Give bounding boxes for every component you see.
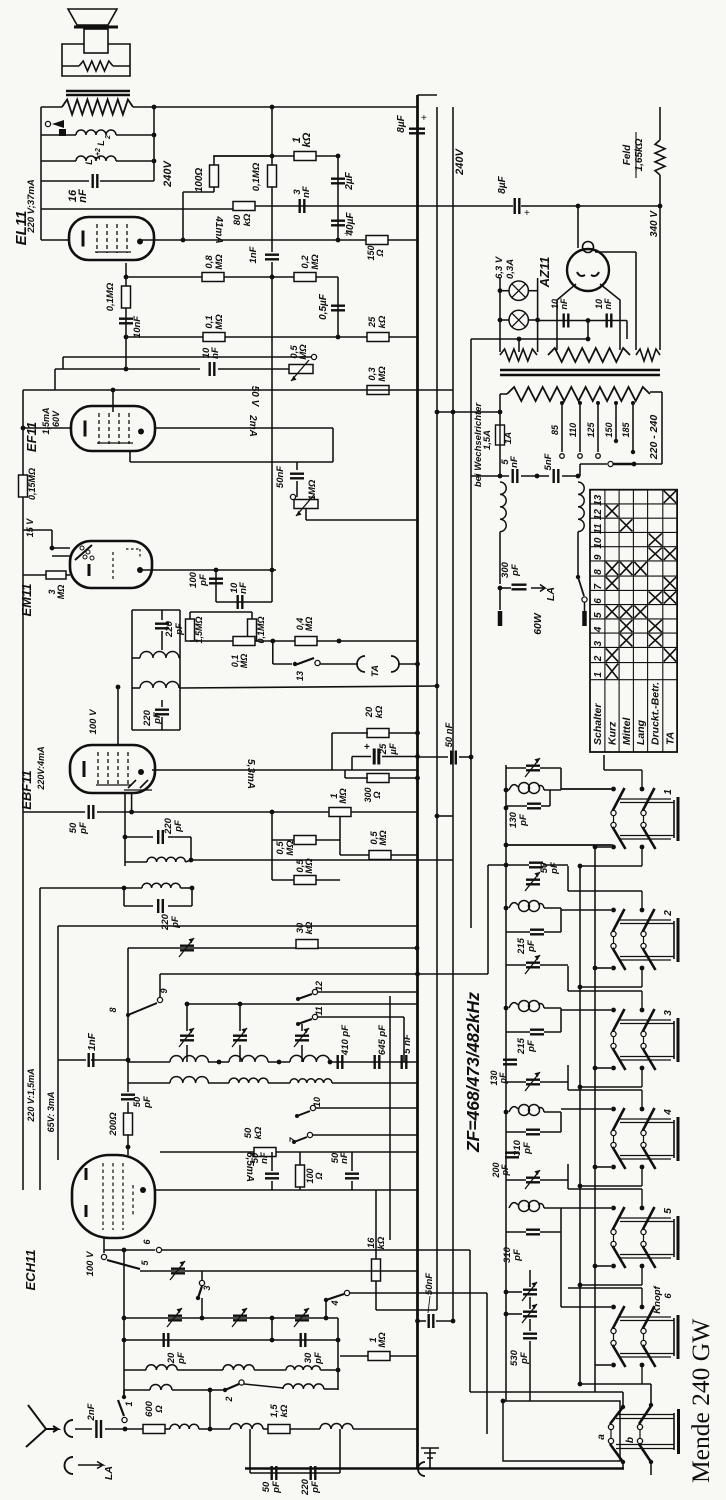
junction xyxy=(504,863,509,868)
svg-text:MΩ: MΩ xyxy=(214,314,225,330)
svg-text:pF: pF xyxy=(310,1481,321,1494)
wire xyxy=(375,1281,377,1310)
svg-text:50 V: 50 V xyxy=(249,386,260,408)
LA jack xyxy=(65,1457,74,1474)
wire 812 line b xyxy=(97,811,329,813)
ECH11 internals xyxy=(85,1168,88,1180)
wire rail 338 xyxy=(337,156,339,240)
wire xyxy=(189,612,191,619)
wire xyxy=(500,319,509,321)
junction xyxy=(535,474,540,479)
wire 50V line xyxy=(23,389,453,391)
svg-text:220V:4mA: 220V:4mA xyxy=(36,746,46,790)
svg-text:pF: pF xyxy=(170,916,181,929)
wire xyxy=(123,1390,125,1397)
capacitor 2µF xyxy=(331,179,345,184)
svg-text:0,1MΩ: 0,1MΩ xyxy=(251,162,262,191)
svg-text:1MΩ: 1MΩ xyxy=(307,479,318,500)
wire xyxy=(161,700,163,707)
switch 11 arm xyxy=(298,1019,312,1024)
wire xyxy=(528,319,537,321)
svg-text:pF: pF xyxy=(78,822,89,835)
AZ11 filament hooks xyxy=(577,272,599,276)
coil L2 row xyxy=(76,130,116,135)
wire xyxy=(595,1067,611,1069)
trimmer capacitor a arrow xyxy=(179,938,194,957)
wire AZ11 plate lead right xyxy=(600,284,620,339)
wire xyxy=(305,509,307,520)
svg-text:0,5µF: 0,5µF xyxy=(318,293,329,320)
potentiometer 0,5MΩ xyxy=(289,365,313,374)
wire xyxy=(540,1131,561,1133)
svg-text:TA: TA xyxy=(370,665,381,677)
wire xyxy=(129,451,131,462)
svg-text:MΩ: MΩ xyxy=(378,830,389,846)
junction xyxy=(415,972,420,977)
table X marks xyxy=(606,505,618,517)
junction xyxy=(238,1002,243,1007)
capacitor 40µF xyxy=(331,221,345,226)
wire xyxy=(506,1313,522,1315)
trimmer IF3 xyxy=(526,1080,540,1085)
wire to switch 1 lower xyxy=(506,844,613,846)
junction xyxy=(415,662,420,667)
svg-text:Feld: Feld xyxy=(622,144,633,165)
ab contact a xyxy=(608,1424,613,1429)
wire xyxy=(216,601,272,603)
switch 1 arm xyxy=(118,1400,124,1416)
svg-text:5: 5 xyxy=(593,612,604,618)
capacitor 5nF c xyxy=(402,1055,407,1069)
wire xyxy=(299,1187,301,1190)
svg-text:kΩ: kΩ xyxy=(301,132,313,147)
svg-text:µF: µF xyxy=(388,743,399,755)
main bus xyxy=(416,95,419,1468)
svg-text:2: 2 xyxy=(593,655,604,662)
capacitor 10nF xyxy=(119,319,133,324)
trimmer capacitor g arrow xyxy=(167,1308,182,1327)
mains core 1 xyxy=(500,369,660,372)
bus 453 xyxy=(452,107,454,1321)
capacitor 220pF a xyxy=(155,624,169,629)
junction xyxy=(576,474,581,479)
wire 926 line xyxy=(58,925,417,927)
resistor 3MΩ xyxy=(46,571,66,579)
junction xyxy=(504,843,509,848)
trimmer capacitor e arrow xyxy=(170,1261,185,1280)
junction xyxy=(295,1114,299,1118)
wire xyxy=(41,134,76,136)
fuse 1,5A xyxy=(496,425,505,445)
coil ant a1 xyxy=(146,1365,177,1370)
wire xyxy=(488,864,529,866)
left rail 40 xyxy=(39,888,41,1190)
wire 10 line xyxy=(316,1107,417,1109)
svg-text:6: 6 xyxy=(593,598,604,604)
capacitor 220pF c xyxy=(158,830,163,844)
wire xyxy=(127,1083,129,1092)
wire xyxy=(191,888,193,906)
capacitor 1nF b xyxy=(89,1053,94,1067)
junction xyxy=(296,1022,300,1026)
wire xyxy=(201,1298,203,1318)
svg-text:MΩ: MΩ xyxy=(56,585,66,600)
svg-text:2nF: 2nF xyxy=(86,1403,97,1421)
coil osc a2 xyxy=(229,1056,268,1062)
wire xyxy=(562,475,580,477)
wire xyxy=(160,1151,254,1153)
svg-text:150: 150 xyxy=(604,422,614,437)
junction xyxy=(586,318,591,323)
wire xyxy=(506,1081,526,1083)
tube EF11 xyxy=(71,406,155,451)
wire xyxy=(635,290,637,350)
junction xyxy=(122,1248,127,1253)
wire EM11 anode line xyxy=(140,569,276,571)
wire 1340 line xyxy=(124,1339,338,1341)
wire xyxy=(271,1152,273,1171)
capacitor 130pF a xyxy=(527,804,541,809)
wire riser 272 xyxy=(272,641,274,664)
svg-text:AZ11: AZ11 xyxy=(537,257,552,289)
transformer core line 2 xyxy=(66,94,130,97)
svg-text:pF: pF xyxy=(512,1249,523,1262)
wire xyxy=(459,756,471,758)
junction xyxy=(123,835,128,840)
coil osc b1 xyxy=(170,1077,208,1083)
wire xyxy=(561,1306,611,1308)
ground bus bottom xyxy=(245,1467,624,1470)
junction xyxy=(593,1066,598,1071)
wire xyxy=(595,967,611,969)
wire xyxy=(186,1004,188,1031)
svg-text:kΩ: kΩ xyxy=(304,921,315,934)
wire 1384 line xyxy=(580,1383,651,1385)
svg-text:645 pF: 645 pF xyxy=(377,1025,388,1055)
svg-text:410 pF: 410 pF xyxy=(340,1025,351,1056)
svg-text:Lang: Lang xyxy=(635,719,647,745)
wire tap 125 xyxy=(597,403,599,452)
wire xyxy=(190,837,192,860)
junction xyxy=(111,388,116,393)
wire xyxy=(506,1231,526,1233)
wire xyxy=(529,1319,531,1331)
trimmer osc b arrow xyxy=(522,1304,537,1323)
svg-text:8µF: 8µF xyxy=(396,114,407,132)
tap contact 125 xyxy=(596,454,601,459)
coil dial lamp choke b xyxy=(578,482,584,532)
ab arm b lower xyxy=(639,1444,651,1462)
wire ECH anode line xyxy=(155,1189,417,1191)
wire xyxy=(132,657,140,659)
wire 390 rail xyxy=(389,996,391,1240)
svg-text:L: L xyxy=(96,140,106,146)
junction xyxy=(504,806,509,811)
tube ECH11 xyxy=(72,1155,155,1238)
wire xyxy=(389,732,418,734)
junction xyxy=(576,575,580,579)
trimmer capacitor i xyxy=(295,1316,309,1321)
coil osc b2 xyxy=(229,1078,268,1083)
trimmer capacitor h xyxy=(233,1316,247,1321)
wire xyxy=(568,890,642,892)
wire xyxy=(208,1082,229,1084)
wire xyxy=(324,1388,338,1390)
wire xyxy=(560,768,562,790)
wire xyxy=(580,865,642,867)
junction xyxy=(649,1460,653,1464)
resistor 0,15MΩ xyxy=(19,475,28,497)
capacitor 50pF d xyxy=(529,863,543,868)
capacitor 8µF b xyxy=(515,198,520,214)
junction xyxy=(214,568,219,573)
capacitor 50nF a xyxy=(290,474,304,479)
wire xyxy=(125,836,153,838)
wire rail 272 xyxy=(271,107,273,165)
tube AZ11 xyxy=(567,249,609,291)
coil L1+2 row xyxy=(76,156,116,161)
wire 357 line xyxy=(63,356,311,358)
wire riser xyxy=(344,770,346,778)
label 50nF leader xyxy=(428,1296,430,1313)
svg-text:0,15MΩ: 0,15MΩ xyxy=(27,468,37,500)
wire 462 line xyxy=(130,461,333,463)
junction xyxy=(181,238,186,243)
switch 2 arm xyxy=(225,1384,239,1390)
wire coil frame L xyxy=(131,610,133,730)
wire 220-240 drop xyxy=(661,392,663,464)
junction xyxy=(196,1296,200,1300)
svg-text:50 nF: 50 nF xyxy=(444,722,455,747)
wire xyxy=(316,839,340,841)
switch 13 contact xyxy=(315,660,320,665)
wire xyxy=(626,321,628,340)
tap switch arm xyxy=(52,120,64,128)
svg-text:Kurz: Kurz xyxy=(607,721,619,745)
wire riser xyxy=(351,757,353,771)
switch 4 arm xyxy=(326,1294,344,1300)
wire xyxy=(540,767,561,769)
antenna symbol xyxy=(26,1405,58,1447)
coil ant b1 xyxy=(150,1385,172,1391)
switch 1 contact xyxy=(122,1417,127,1422)
svg-text:7: 7 xyxy=(593,584,604,590)
junction xyxy=(498,474,503,479)
capacitor 130pF b xyxy=(503,1060,517,1065)
wire xyxy=(587,321,589,340)
svg-text:1: 1 xyxy=(124,1401,134,1406)
wire xyxy=(340,854,369,856)
wire tube lead b xyxy=(124,793,126,866)
loudspeaker magnet xyxy=(84,29,108,53)
junction xyxy=(126,1013,130,1017)
svg-text:kΩ: kΩ xyxy=(253,1126,264,1139)
wire corner xyxy=(54,369,56,390)
wire cathode EL11 xyxy=(41,239,69,241)
wire 5nF row xyxy=(471,475,509,477)
EF11 left rail xyxy=(22,390,24,530)
mains primary zigzag xyxy=(507,387,650,401)
svg-text:EF11: EF11 xyxy=(24,422,39,452)
wire tap 150 xyxy=(615,403,617,441)
wire xyxy=(116,134,154,136)
capacitor 20pF xyxy=(164,1333,169,1347)
svg-text:200Ω: 200Ω xyxy=(108,1112,119,1137)
switch 5 arm xyxy=(107,1260,140,1269)
capacitor 215pF b xyxy=(530,1030,544,1035)
svg-text:+: + xyxy=(524,208,530,219)
wire tap 110 xyxy=(579,403,581,452)
bus 471 xyxy=(470,339,472,928)
switch group 1 xyxy=(620,798,671,800)
junction xyxy=(435,814,440,819)
wire xyxy=(168,836,191,838)
wire xyxy=(301,1024,303,1031)
junction xyxy=(504,788,509,793)
wire xyxy=(580,1284,642,1286)
capacitor 1nF xyxy=(265,255,279,260)
svg-text:5,3mA: 5,3mA xyxy=(245,759,256,789)
wire riser xyxy=(331,733,333,770)
wire xyxy=(208,1061,229,1063)
svg-text:nF: nF xyxy=(509,456,520,468)
wire xyxy=(528,290,537,292)
junction xyxy=(124,335,129,340)
capacitor 10nF b xyxy=(210,362,215,376)
wire xyxy=(544,1007,561,1009)
wire xyxy=(320,663,358,665)
capacitor 300pF xyxy=(512,585,527,590)
trimmer IF2b arrow xyxy=(525,955,540,974)
wire 1318 line xyxy=(124,1317,338,1319)
wire 1392 line xyxy=(470,1391,623,1393)
wire xyxy=(272,839,294,841)
capacitor 10nF e xyxy=(238,595,243,609)
wire xyxy=(165,1428,170,1430)
junction xyxy=(270,1316,275,1321)
rail 580 xyxy=(579,867,581,1384)
junction xyxy=(504,1110,509,1115)
wire xyxy=(125,861,147,863)
wire xyxy=(567,966,569,991)
junction xyxy=(593,845,598,850)
wire xyxy=(41,160,76,162)
wire AZ11 right xyxy=(595,251,636,253)
wire xyxy=(577,532,579,575)
coil IF a xyxy=(140,652,179,659)
capacitor 16nF xyxy=(93,174,98,188)
wire xyxy=(580,1086,642,1088)
svg-text:110: 110 xyxy=(568,423,578,437)
svg-text:85: 85 xyxy=(550,424,560,435)
junction xyxy=(469,755,474,760)
wire mains feed xyxy=(437,411,500,413)
wire xyxy=(159,974,161,997)
svg-text:1nF: 1nF xyxy=(248,246,259,263)
wire lamp rail L xyxy=(499,278,501,352)
wire heater mid xyxy=(471,338,588,340)
svg-text:1A: 1A xyxy=(503,432,514,444)
coil osc b3 xyxy=(290,1079,332,1083)
svg-text:5: 5 xyxy=(663,1208,674,1214)
svg-text:kΩ: kΩ xyxy=(377,315,388,328)
wire xyxy=(544,1207,561,1209)
wire xyxy=(506,844,611,846)
svg-text:nF: nF xyxy=(210,347,221,359)
svg-text:nF: nF xyxy=(339,1152,350,1164)
left rail 23 lower xyxy=(22,575,24,1190)
switch contact LA xyxy=(582,597,587,602)
wire 128 rail xyxy=(127,948,129,1062)
wire fuse lead xyxy=(499,394,501,425)
switch 7 arm xyxy=(294,1137,307,1142)
wire node 240V rail top xyxy=(133,106,417,108)
junction xyxy=(324,1298,328,1302)
capacitor 645pF xyxy=(375,1055,380,1069)
wire 733 line xyxy=(332,732,368,734)
wire xyxy=(595,1364,611,1366)
wire 337 line xyxy=(126,336,417,338)
wire xyxy=(161,717,163,730)
svg-text:11: 11 xyxy=(314,1006,324,1015)
svg-text:12: 12 xyxy=(314,981,324,991)
resistor 0,1MΩ b xyxy=(122,286,131,308)
junction xyxy=(501,1399,506,1404)
svg-text:pF: pF xyxy=(549,862,560,875)
wire xyxy=(579,464,581,476)
wire 687 line xyxy=(180,686,437,688)
TA jack xyxy=(357,656,399,672)
junction xyxy=(124,275,129,280)
junction xyxy=(21,426,26,431)
wire xyxy=(339,817,341,855)
wire xyxy=(518,339,520,352)
wire xyxy=(556,339,558,350)
svg-text:4: 4 xyxy=(593,626,604,633)
capacitor 50nF e xyxy=(429,1314,434,1328)
svg-text:TA: TA xyxy=(664,732,676,745)
svg-text:0,1MΩ: 0,1MΩ xyxy=(256,616,266,643)
wire xyxy=(23,574,46,576)
wire xyxy=(127,1102,129,1113)
wire xyxy=(172,1389,225,1391)
resistor 1,5MΩ xyxy=(186,619,195,641)
junction xyxy=(189,858,194,863)
svg-text:+: + xyxy=(344,229,350,240)
wire xyxy=(271,1181,273,1190)
svg-text:ZF=468/473/482kHz: ZF=468/473/482kHz xyxy=(463,992,483,1153)
wire bottom caps xyxy=(250,1472,340,1474)
junction xyxy=(415,731,420,736)
wire rail 272 low xyxy=(271,812,273,880)
lamp 2 xyxy=(509,310,528,329)
wire xyxy=(132,609,180,611)
wire 974 line xyxy=(160,973,488,975)
junction xyxy=(498,288,503,293)
bus 437 xyxy=(436,107,438,1310)
trimmer IF4 xyxy=(526,1178,540,1183)
capacitor 310pF b xyxy=(526,1230,540,1235)
wire xyxy=(436,1320,453,1322)
svg-text:MΩ: MΩ xyxy=(214,254,225,270)
wire 812 line xyxy=(23,811,85,813)
EM11 deflector xyxy=(75,545,92,560)
wire xyxy=(62,65,79,67)
potentiometer 1MΩ a xyxy=(294,500,318,509)
EM11 cathode xyxy=(88,564,91,576)
wire xyxy=(296,481,298,497)
wire xyxy=(544,1111,561,1113)
